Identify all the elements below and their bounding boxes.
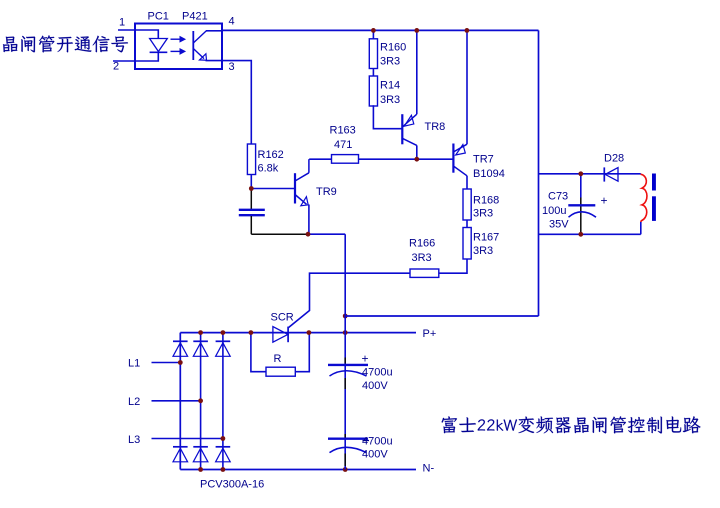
svg-text:L1: L1 bbox=[128, 358, 140, 370]
svg-text:3: 3 bbox=[229, 61, 235, 73]
svg-text:R14: R14 bbox=[380, 80, 400, 92]
svg-text:SCR: SCR bbox=[271, 312, 294, 324]
svg-text:R160: R160 bbox=[380, 42, 406, 54]
svg-text:1: 1 bbox=[119, 17, 125, 29]
svg-text:3R3: 3R3 bbox=[473, 208, 493, 220]
svg-text:+: + bbox=[362, 352, 369, 366]
svg-text:R166: R166 bbox=[409, 238, 435, 250]
svg-text:471: 471 bbox=[334, 139, 352, 151]
svg-text:6.8k: 6.8k bbox=[258, 163, 279, 175]
svg-text:35V: 35V bbox=[549, 219, 569, 231]
svg-text:PCV300A-16: PCV300A-16 bbox=[200, 479, 264, 491]
svg-text:4700u: 4700u bbox=[362, 436, 393, 448]
svg-text:D28: D28 bbox=[604, 153, 624, 165]
svg-text:TR7: TR7 bbox=[473, 154, 494, 166]
svg-text:C73: C73 bbox=[548, 191, 568, 203]
svg-text:4: 4 bbox=[229, 16, 235, 28]
svg-text:L2: L2 bbox=[128, 396, 140, 408]
svg-text:3R3: 3R3 bbox=[380, 94, 400, 106]
svg-text:3R3: 3R3 bbox=[473, 245, 493, 257]
svg-text:3R3: 3R3 bbox=[412, 252, 432, 264]
svg-text:TR8: TR8 bbox=[425, 121, 446, 133]
svg-text:B1094: B1094 bbox=[473, 168, 505, 180]
svg-text:N-: N- bbox=[423, 463, 435, 475]
svg-text:PC1: PC1 bbox=[148, 11, 169, 23]
svg-text:R: R bbox=[274, 353, 282, 365]
svg-text:L3: L3 bbox=[128, 434, 140, 446]
svg-text:R163: R163 bbox=[330, 125, 356, 137]
svg-text:2: 2 bbox=[113, 61, 119, 73]
svg-text:R167: R167 bbox=[473, 232, 499, 244]
svg-text:R168: R168 bbox=[473, 195, 499, 207]
svg-text:100u: 100u bbox=[542, 205, 566, 217]
svg-text:P421: P421 bbox=[182, 11, 208, 23]
svg-text:400V: 400V bbox=[362, 380, 388, 392]
svg-text:R162: R162 bbox=[258, 149, 284, 161]
svg-text:3R3: 3R3 bbox=[380, 56, 400, 68]
svg-text:+: + bbox=[601, 194, 608, 208]
svg-text:P+: P+ bbox=[423, 328, 437, 340]
svg-text:TR9: TR9 bbox=[316, 186, 337, 198]
svg-text:4700u: 4700u bbox=[362, 367, 393, 379]
svg-text:400V: 400V bbox=[362, 449, 388, 461]
